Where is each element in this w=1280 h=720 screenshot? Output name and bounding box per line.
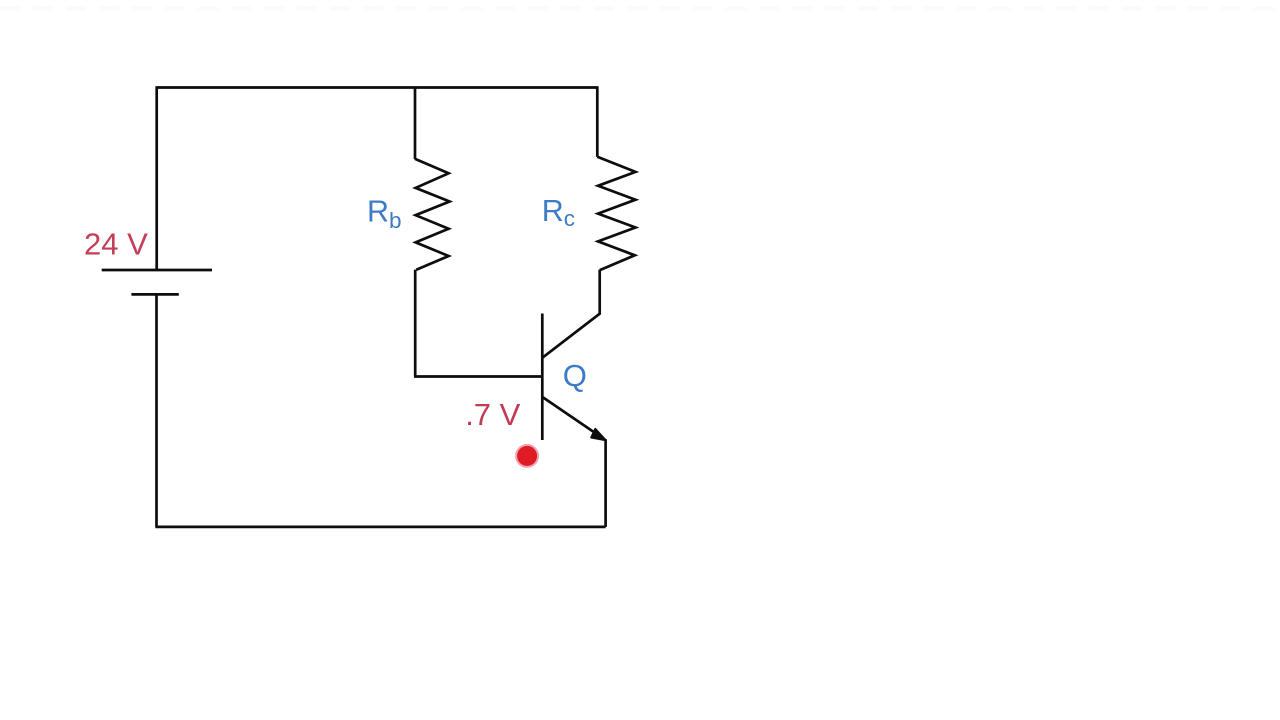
svg-text:Q: Q (563, 358, 587, 393)
transistor Q emitter line (543, 397, 600, 436)
svg-text:.7 V: .7 V (465, 397, 520, 432)
resistor Rb zigzag (415, 159, 450, 270)
wire left lower (battery - lead) (155, 294, 158, 527)
resistor Rc zigzag (597, 157, 635, 270)
node dot (red probe point) (515, 444, 539, 468)
svg-text:24 V: 24 V (84, 227, 148, 262)
wire Rb bottom lead (414, 270, 417, 377)
wire bottom rail (155, 526, 605, 529)
wire Rc bottom lead / collector (543, 270, 600, 358)
wire Rb top lead (414, 88, 417, 160)
battery V1 short plate (131, 293, 178, 296)
wire base (Rb to Q) (414, 375, 542, 378)
transistor Q base bar (541, 314, 544, 441)
wire top rail (157, 86, 598, 89)
wire left upper (battery + lead) (155, 86, 158, 270)
battery V1 long plate (102, 269, 212, 272)
wire Rc top lead (596, 86, 599, 157)
transistor Q emitter arrowhead (591, 429, 606, 440)
faint top dashes (video artifact) (0, 6, 1280, 11)
wire emitter lead down (604, 439, 607, 527)
